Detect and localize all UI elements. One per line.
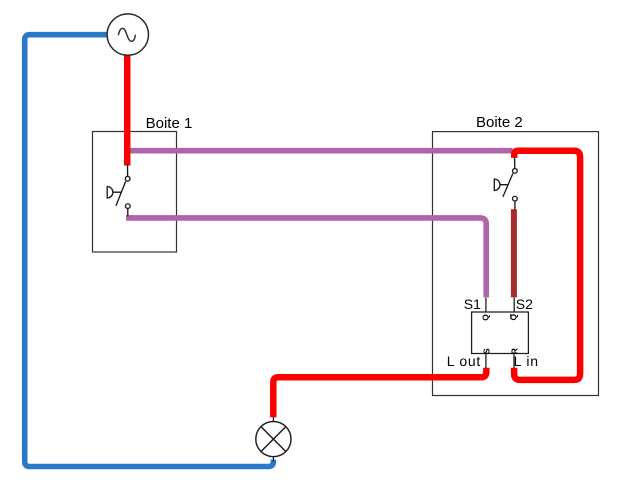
pin 3 (L out)	[485, 354, 487, 369]
pin 1 (S1 coil)	[485, 298, 487, 312]
svg-text:S2: S2	[516, 296, 533, 312]
wire violet L1: switch1 common feed to switch2 top	[127, 148, 512, 154]
svg-text:Q: Q	[509, 314, 519, 321]
lamp DS1	[256, 417, 291, 462]
wire red lamp: relay L out to lamp	[273, 368, 486, 417]
blade	[503, 173, 513, 197]
cross	[261, 427, 286, 452]
lead top	[272, 417, 274, 422]
svg-text:L out: L out	[447, 353, 481, 369]
svg-text:S: S	[481, 348, 491, 354]
contact top	[513, 169, 518, 174]
relay U1 (telerupteur SR latch)	[472, 298, 529, 368]
switch SW2 (Boite 2)	[494, 157, 517, 210]
svg-text:L in: L in	[514, 353, 539, 369]
wire blue neutral: source to lamp	[25, 35, 274, 467]
AC source V1	[107, 14, 148, 55]
svg-text:Boite 1: Boite 1	[146, 115, 193, 132]
blade	[116, 181, 126, 206]
actuator	[107, 187, 121, 198]
pin label Qbar overline	[510, 314, 512, 319]
switch SW1 (Boite 1)	[107, 164, 130, 217]
contact bottom	[513, 196, 518, 201]
actuator	[494, 179, 508, 190]
contact top	[125, 176, 130, 181]
pin top	[514, 157, 516, 168]
pin top	[127, 164, 129, 176]
wire red phase: source to switch1	[124, 55, 131, 165]
box Boite 1	[93, 132, 177, 253]
svg-text:Boite 2: Boite 2	[476, 114, 523, 131]
wire dark-red S2: switch2 lower to relay S2	[511, 209, 517, 297]
box Boite 2	[433, 132, 599, 396]
pin bottom	[514, 201, 516, 210]
svg-text:S1: S1	[464, 296, 481, 312]
bulb	[256, 422, 291, 457]
pin bottom	[127, 209, 129, 217]
pin 2 (S2 coil)	[513, 298, 515, 312]
lead bottom	[272, 457, 274, 462]
svg-text:Q: Q	[481, 314, 491, 321]
wire violet S1 return: switch1 lower to relay S1	[126, 218, 486, 298]
pin 4 (L in)	[513, 354, 515, 369]
wire red loop: switch2 top around to relay L in	[514, 151, 580, 380]
body	[472, 312, 529, 354]
contact bottom	[125, 204, 130, 209]
